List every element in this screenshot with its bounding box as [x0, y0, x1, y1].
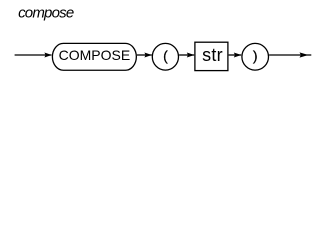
wire exit segment	[269, 54, 311, 56]
wire str to )	[229, 54, 242, 56]
wire COMPOSE to (	[137, 54, 152, 56]
terminal bubble COMPOSE	[52, 43, 136, 70]
svg-text:(: (	[163, 48, 168, 64]
arrowhead into )	[234, 53, 242, 58]
nonterminal box str	[195, 42, 228, 70]
arrowhead into str	[187, 53, 195, 58]
terminal bubble (	[152, 43, 178, 70]
arrowhead into (	[144, 53, 152, 58]
svg-text:): )	[253, 48, 258, 64]
svg-text:COMPOSE: COMPOSE	[59, 47, 131, 63]
arrowhead end	[300, 52, 309, 57]
title compose	[18, 5, 74, 22]
arrowhead into COMPOSE	[44, 53, 51, 58]
svg-text:compose: compose	[18, 5, 74, 22]
svg-text:str: str	[202, 45, 223, 65]
wire ( to str	[179, 54, 194, 56]
wire start segment	[15, 54, 52, 56]
terminal bubble )	[242, 43, 269, 70]
